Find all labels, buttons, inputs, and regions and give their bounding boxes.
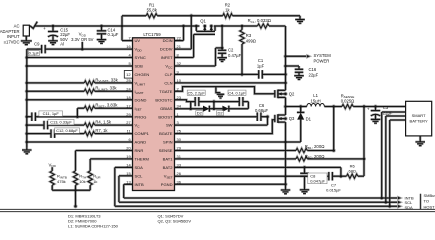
svg-text:C12, 0.68µF: C12, 0.68µF — [56, 128, 78, 133]
svg-text:AGND: AGND — [135, 140, 147, 145]
svg-text:PROG: PROG — [135, 114, 147, 119]
svg-text:R4, 1.5k: R4, 1.5k — [95, 120, 112, 125]
svg-text:C16: C16 — [309, 67, 317, 72]
svg-text:TGATE: TGATE — [159, 89, 172, 94]
svg-text:BATTERY: BATTERY — [410, 118, 428, 123]
svg-text:SDA: SDA — [405, 205, 414, 210]
svg-text:31: 31 — [177, 154, 181, 159]
svg-text:RNR: RNR — [135, 148, 144, 153]
svg-text:9: 9 — [177, 70, 179, 75]
svg-text:SMBus: SMBus — [424, 193, 435, 198]
svg-text:1µF: 1µF — [257, 63, 265, 68]
svg-text:0.1µF: 0.1µF — [108, 32, 119, 37]
svg-text:TO: TO — [424, 199, 429, 204]
svg-text:D2: D2 — [197, 111, 203, 116]
svg-text:POWER: POWER — [314, 58, 330, 63]
svg-text:LTC1759: LTC1759 — [143, 32, 161, 37]
svg-text:BOOSTC: BOOSTC — [155, 97, 172, 102]
svg-text:Q3: Q3 — [289, 116, 295, 121]
svg-text:UV: UV — [135, 38, 141, 43]
svg-text:10k: 10k — [79, 179, 85, 184]
svg-text:+: + — [43, 26, 46, 31]
svg-text:C13, 0.33µF: C13, 0.33µF — [50, 120, 72, 125]
svg-text:11: 11 — [127, 129, 131, 134]
svg-text:1k: 1k — [93, 179, 97, 184]
svg-text:DCDIV: DCDIV — [160, 47, 173, 52]
svg-text:0.47µF: 0.47µF — [228, 53, 242, 58]
svg-text:C1: C1 — [258, 58, 264, 63]
svg-text:SDB: SDB — [135, 64, 144, 69]
svg-text:0.025Ω: 0.025Ω — [341, 99, 355, 104]
svg-text:SW: SW — [166, 123, 173, 128]
svg-text:499Ω: 499Ω — [246, 39, 256, 44]
svg-text:0.1µF: 0.1µF — [29, 51, 40, 56]
svg-text:22µF: 22µF — [383, 110, 393, 115]
svg-text:L1: SUMIDA CDRH127-150: L1: SUMIDA CDRH127-150 — [68, 224, 119, 229]
svg-text:BGATE: BGATE — [159, 131, 173, 136]
svg-text:29: 29 — [126, 112, 130, 117]
svg-text:C3: C3 — [383, 105, 389, 110]
svg-text:SENSE: SENSE — [159, 148, 173, 153]
svg-text:BOOST: BOOST — [158, 114, 173, 119]
svg-text:C5, 2.2µF: C5, 2.2µF — [188, 90, 206, 95]
svg-text:SYNC: SYNC — [135, 55, 146, 60]
svg-text:32: 32 — [177, 61, 181, 66]
svg-text:22: 22 — [177, 36, 181, 41]
svg-text:CLP: CLP — [165, 72, 173, 77]
svg-text:COMP1: COMP1 — [135, 131, 150, 136]
svg-text:Al: Al — [60, 42, 64, 47]
svg-text:3.3V OR 5V: 3.3V OR 5V — [71, 37, 94, 42]
svg-text:0.68µF: 0.68µF — [255, 108, 269, 113]
svg-text:CLN: CLN — [164, 81, 172, 86]
svg-text:55.8k: 55.8k — [147, 8, 158, 13]
svg-text:SCL: SCL — [135, 173, 144, 178]
svg-text:SPIN: SPIN — [163, 140, 173, 145]
svg-text:INTB: INTB — [135, 182, 145, 187]
svg-text:SMART: SMART — [412, 113, 426, 118]
svg-text:C9: C9 — [34, 41, 40, 46]
svg-text:DGND: DGND — [135, 97, 147, 102]
svg-text:21: 21 — [177, 44, 181, 49]
svg-text:BAT1: BAT1 — [163, 157, 174, 162]
svg-text:19: 19 — [126, 154, 130, 159]
svg-text:≥17VDC: ≥17VDC — [4, 39, 20, 44]
svg-text:7: 7 — [128, 36, 130, 41]
svg-text:GBIAS: GBIAS — [160, 106, 173, 111]
svg-text:BAT2: BAT2 — [163, 165, 174, 170]
svg-text:SYSTEM: SYSTEM — [314, 53, 332, 58]
svg-text:2: 2 — [177, 86, 179, 91]
svg-text:Q2: Q2 — [289, 92, 295, 97]
svg-text:475k: 475k — [57, 179, 66, 184]
svg-text:Q1: Q1 — [200, 18, 206, 23]
svg-text:D1: D1 — [306, 117, 312, 122]
svg-text:17: 17 — [126, 103, 130, 108]
svg-text:Q2, Q3: Si3456DV: Q2, Q3: Si3456DV — [158, 219, 192, 224]
svg-text:C11, 1µF: C11, 1µF — [43, 111, 60, 116]
svg-text:DCIN: DCIN — [163, 38, 173, 43]
svg-text:+: + — [367, 107, 370, 112]
svg-text:29: 29 — [177, 146, 181, 151]
svg-text:1: 1 — [177, 112, 179, 117]
svg-text:27: 27 — [126, 120, 130, 125]
svg-text:15µH: 15µH — [311, 98, 321, 103]
svg-text:SDA: SDA — [135, 165, 144, 170]
svg-text:INFET: INFET — [161, 55, 173, 60]
svg-text:HOST: HOST — [424, 204, 435, 209]
svg-text:THERM: THERM — [135, 157, 150, 162]
svg-text:L1: L1 — [313, 93, 318, 98]
svg-text:PGND: PGND — [161, 182, 173, 187]
svg-text:R3: R3 — [246, 33, 252, 38]
svg-text:R7, 1k: R7, 1k — [95, 128, 108, 133]
svg-text:12: 12 — [126, 72, 131, 77]
svg-text:C4, 0.1µF: C4, 0.1µF — [228, 90, 246, 95]
svg-text:22µF: 22µF — [309, 72, 319, 77]
svg-text:CHGEN: CHGEN — [135, 72, 150, 77]
svg-text:D2: D2 — [217, 111, 223, 116]
svg-text:C2: C2 — [228, 47, 234, 52]
svg-text:0.047µF: 0.047µF — [310, 178, 325, 183]
svg-text:0.015µF: 0.015µF — [326, 188, 341, 193]
svg-text:68Ω: 68Ω — [348, 168, 355, 173]
